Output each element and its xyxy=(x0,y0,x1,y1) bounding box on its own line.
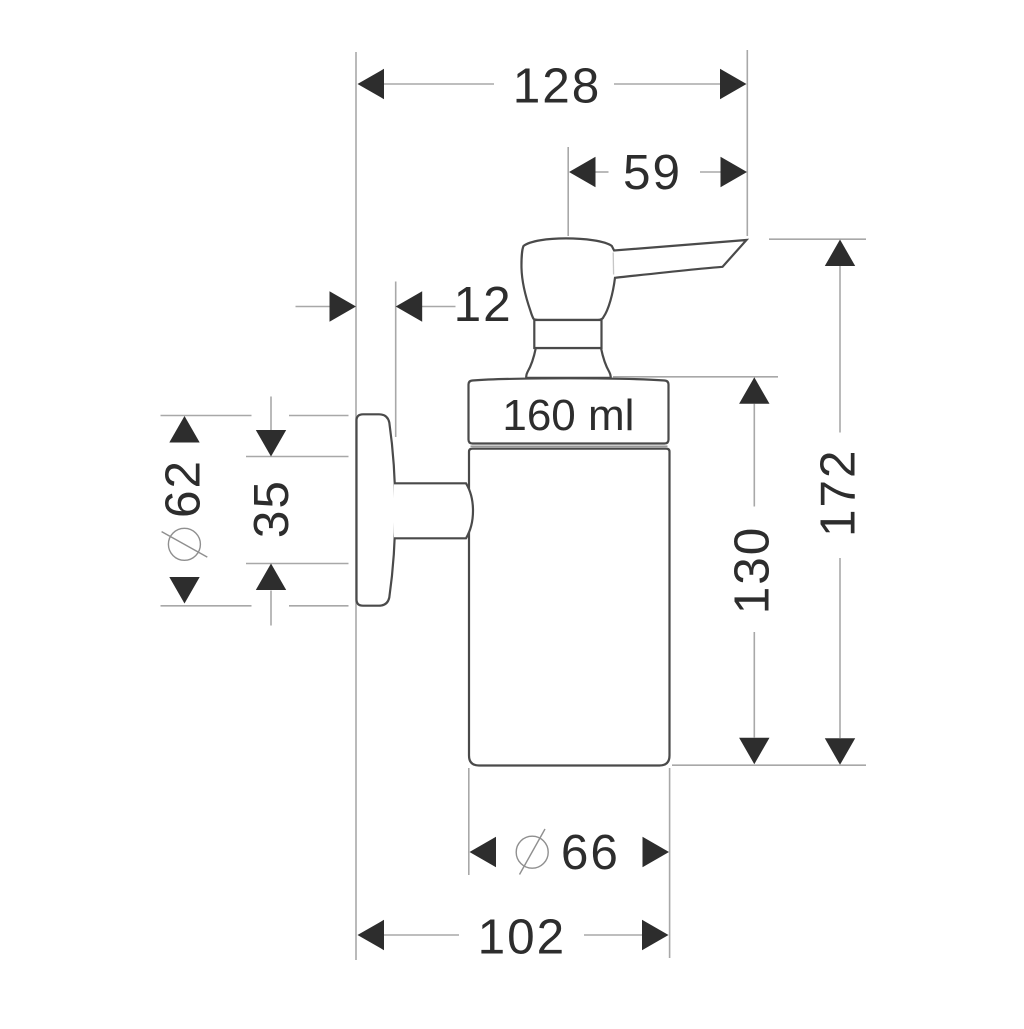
svg-text:59: 59 xyxy=(623,145,682,200)
extension line 35 bottom xyxy=(246,563,349,565)
dia66 phi symbol xyxy=(516,829,548,875)
dimension 102 line xyxy=(384,934,459,936)
dimension 102 arrows xyxy=(358,920,385,950)
extension line 130 top xyxy=(613,376,778,378)
dimension 35 line xyxy=(270,397,272,431)
dimension 130 line xyxy=(753,404,755,507)
extension line dia66 left xyxy=(468,768,470,875)
svg-text:102: 102 xyxy=(478,910,567,965)
dimension 172 arrows xyxy=(825,240,855,267)
extension line 59 left xyxy=(567,147,569,236)
extension line dia62 top xyxy=(161,415,252,417)
svg-text:12: 12 xyxy=(454,277,513,332)
svg-text:35: 35 xyxy=(244,479,299,538)
dimension dia62 arrows xyxy=(169,416,199,443)
collar (160 ml band) xyxy=(469,378,669,443)
pump neck ring xyxy=(534,320,601,348)
dimension 128 line xyxy=(384,83,494,85)
extension line dia62 bottom xyxy=(161,605,252,607)
dimension 172 line xyxy=(839,266,841,433)
svg-text:128: 128 xyxy=(513,59,602,114)
collar ring junction xyxy=(471,445,668,447)
pump head and lever spout xyxy=(521,238,746,319)
dimension 130 arrows xyxy=(739,377,769,404)
extension line dia66/102 right xyxy=(669,768,671,958)
wall plate (escutcheon) xyxy=(357,414,396,605)
dimension dia66 arrows xyxy=(470,837,497,867)
dia62 phi symbol xyxy=(162,528,208,560)
dimension 128 arrows xyxy=(358,69,385,99)
arm / holder ring xyxy=(394,483,473,538)
svg-text:172: 172 xyxy=(811,448,866,537)
extension line 35 top xyxy=(246,456,349,458)
svg-text:160 ml: 160 ml xyxy=(502,391,634,440)
dimension 12 arrows xyxy=(330,291,357,321)
extension line bottom shared 130/172 xyxy=(672,764,866,766)
pump neck flare xyxy=(526,348,611,378)
svg-text:130: 130 xyxy=(724,526,779,615)
extension line 12 right xyxy=(395,282,397,438)
svg-text:66: 66 xyxy=(561,825,620,880)
dimension 59 arrows xyxy=(569,157,596,187)
wall extension line xyxy=(355,52,357,960)
svg-text:62: 62 xyxy=(156,459,211,518)
pump head right edge ghost behind spout xyxy=(612,253,614,275)
dimension 59 line xyxy=(596,171,609,173)
bottle body xyxy=(469,449,670,766)
dimension 35 arrows xyxy=(256,430,286,457)
extension line right of spout tip xyxy=(746,50,748,236)
dimension 12 line xyxy=(296,306,331,308)
extension line 172 top xyxy=(769,238,866,240)
